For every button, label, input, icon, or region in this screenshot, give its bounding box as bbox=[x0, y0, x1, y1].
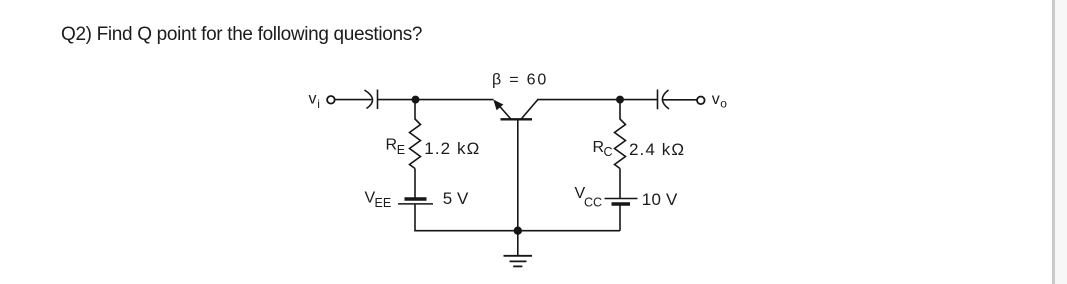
transistor Q1 base bar bbox=[501, 118, 533, 120]
svg-text:EE: EE bbox=[375, 196, 392, 210]
wire resistor RC to battery VCC bbox=[619, 169, 621, 199]
wire node B down to resistor RE bbox=[414, 100, 416, 120]
wire battery VCC to bottom rail bbox=[619, 204, 621, 231]
wire bottom rail bbox=[414, 230, 620, 232]
ground symbol bbox=[504, 256, 533, 267]
wire capacitor C2 to vo terminal bbox=[663, 99, 697, 101]
svg-text:E: E bbox=[397, 143, 405, 157]
battery VCC short thick plate bbox=[612, 202, 631, 205]
svg-text:CC: CC bbox=[584, 196, 602, 210]
vertical divider line bbox=[1052, 0, 1055, 284]
svg-text:5 V: 5 V bbox=[443, 189, 469, 208]
svg-text:2.4 kΩ: 2.4 kΩ bbox=[629, 140, 685, 159]
node vi input terminal bbox=[327, 96, 335, 104]
right pane background bbox=[1055, 0, 1067, 284]
capacitor C2 straight plate bbox=[657, 90, 659, 110]
wire node C down to resistor RC bbox=[619, 100, 621, 120]
transistor Q1 collector lead bbox=[521, 100, 538, 119]
wire battery VEE to bottom rail bbox=[414, 204, 416, 231]
node B junction dot bbox=[412, 96, 418, 102]
title text bbox=[61, 24, 422, 46]
resistor RE zigzag bbox=[410, 119, 421, 169]
label RC bbox=[593, 139, 613, 159]
svg-text:v: v bbox=[309, 90, 317, 107]
transistor Q1 emitter arrow bbox=[493, 100, 503, 111]
label vo bbox=[712, 91, 728, 111]
svg-text:β = 60: β = 60 bbox=[492, 72, 548, 89]
resistor RC zigzag bbox=[615, 119, 626, 169]
wire transistor Q1 base to ground junction bbox=[517, 120, 519, 231]
wire resistor RE to battery VEE bbox=[414, 169, 416, 198]
svg-text:R: R bbox=[593, 139, 605, 156]
svg-text:o: o bbox=[720, 97, 727, 111]
battery VEE short thick plate bbox=[405, 197, 427, 200]
node C junction dot bbox=[617, 96, 623, 102]
battery VEE long thin plate bbox=[398, 203, 433, 205]
label VEE bbox=[365, 189, 392, 210]
transistor Q1 emitter lead bbox=[495, 101, 511, 119]
node vo output terminal bbox=[697, 97, 705, 105]
svg-text:R: R bbox=[386, 136, 398, 153]
capacitor C1 straight plate bbox=[377, 90, 379, 110]
label VCC bbox=[575, 185, 603, 210]
svg-text:1.2 kΩ: 1.2 kΩ bbox=[424, 139, 480, 158]
wire node B to transistor Q1 emitter bbox=[416, 99, 494, 101]
svg-text:i: i bbox=[317, 97, 320, 111]
capacitor C2 curved plate bbox=[662, 90, 669, 109]
wire vi terminal to capacitor C1 bbox=[335, 99, 372, 101]
label RE bbox=[386, 136, 406, 156]
label vi bbox=[309, 90, 320, 111]
wire capacitor C1 to node B bbox=[378, 99, 418, 101]
wire ground stem bbox=[517, 231, 519, 256]
battery VCC long thin plate bbox=[605, 198, 638, 200]
svg-text:v: v bbox=[712, 91, 720, 108]
capacitor C1 curved plate bbox=[365, 90, 373, 109]
node ground junction dot bbox=[514, 227, 521, 234]
svg-text:10 V: 10 V bbox=[642, 190, 678, 209]
svg-text:C: C bbox=[604, 145, 613, 159]
wire transistor Q1 collector to capacitor C2 bbox=[537, 99, 658, 101]
